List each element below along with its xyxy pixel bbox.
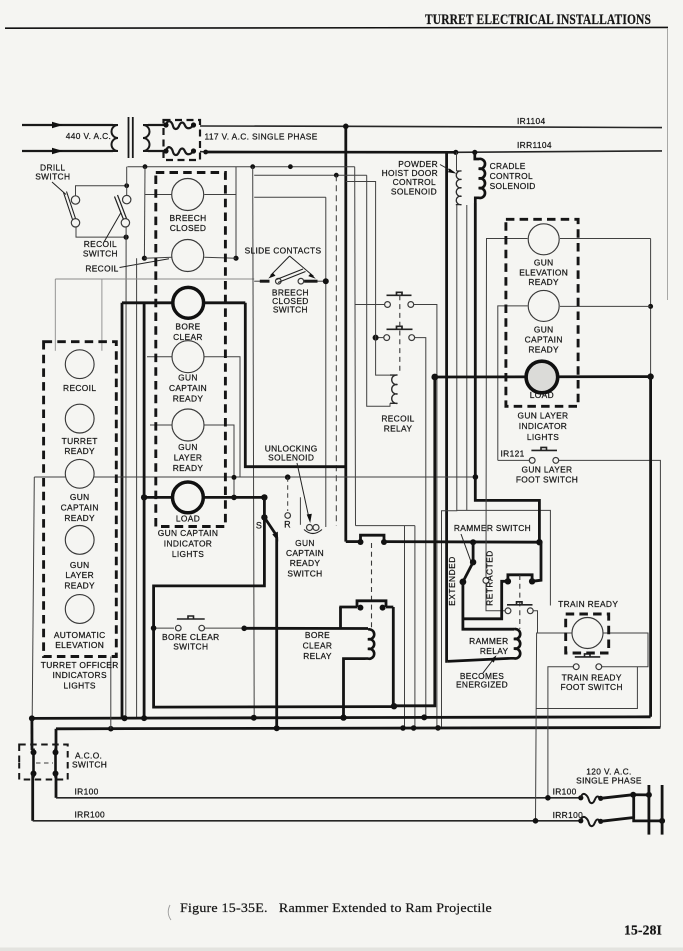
svg-text:SWITCH: SWITCH xyxy=(287,568,322,578)
wire recoil lamp return x136.6 xyxy=(136,258,138,717)
bold vertical from right LOAD row down xyxy=(393,377,435,706)
node dashed gang line top xyxy=(334,173,339,178)
bold fuse link IR100 xyxy=(601,795,649,799)
bold wire LOAD left riser/drop (bore clear row to Bus A) xyxy=(143,303,146,718)
bold wire S blade drop to bore clear line xyxy=(275,537,278,728)
wire to junction xyxy=(318,280,326,282)
node LOAD left xyxy=(141,494,147,500)
line IR100 xyxy=(56,797,581,799)
svg-text:SWITCH: SWITCH xyxy=(273,305,308,315)
terminal bar 2 (120V) xyxy=(661,785,664,835)
node y477 x234 xyxy=(232,475,237,480)
node y166 breech feed xyxy=(143,164,148,169)
svg-text:FOOT SWITCH: FOOT SWITCH xyxy=(516,475,578,485)
node on 117V bottom at x205 xyxy=(203,150,208,155)
svg-text:LAYER: LAYER xyxy=(65,570,94,580)
bore clear switch left lead xyxy=(154,627,174,629)
wire 117V bottom thin lead xyxy=(200,151,206,154)
svg-text:GUN: GUN xyxy=(178,373,198,383)
lamp RECOIL (turret officer) xyxy=(65,350,94,379)
RETRACTED open contact xyxy=(483,577,489,583)
wire gun elevation ready left drop to retracted xyxy=(486,239,528,578)
lamp RECOIL (gun captain) xyxy=(172,240,204,272)
lamp GUN LAYER READY (turret officer) xyxy=(65,526,94,555)
wire 117V bottom heavy segment xyxy=(206,151,456,154)
terminal bar 1 (120V) xyxy=(648,785,651,835)
bold retracted-side leg from bus xyxy=(532,542,541,581)
wire gun captain ready (right) left drop to IR121 xyxy=(498,306,528,461)
K3 auxiliary contact circles xyxy=(505,608,511,614)
svg-text:IR1104: IR1104 xyxy=(517,116,545,126)
svg-text:TURRET ELECTRICAL INSTALLATION: TURRET ELECTRICAL INSTALLATIONS xyxy=(425,12,651,28)
wire gun captain ready right xyxy=(560,305,651,307)
wire train ready foot switch left drop to IR100 xyxy=(548,667,574,798)
wire breech lamp right to switch loop xyxy=(204,194,236,196)
node on IRR100 xyxy=(533,818,539,824)
wire gun captain ready (center) left stub xyxy=(147,356,172,358)
K1 coil xyxy=(390,375,398,403)
wire gun captain ready (center) right stub xyxy=(205,357,241,478)
node K1 coil feed xyxy=(373,335,379,341)
svg-text:LOAD: LOAD xyxy=(176,514,200,524)
svg-text:RECOIL: RECOIL xyxy=(63,383,96,393)
recoil switch pole contacts xyxy=(123,195,131,203)
node y166 long vertical xyxy=(250,164,255,169)
breech closed switch blade (slide) xyxy=(277,269,306,283)
K2 contact right leg down xyxy=(392,607,395,706)
wire right collector x650 thin xyxy=(650,239,652,377)
transformer T1 primary winding xyxy=(112,125,119,151)
bold rammer bus y541 xyxy=(346,540,361,543)
svg-text:RAMMER: RAMMER xyxy=(469,636,508,646)
header rule xyxy=(5,26,668,29)
svg-text:INDICATOR: INDICATOR xyxy=(519,421,567,431)
K1 dashed actuator xyxy=(399,295,401,374)
solenoid L3 UNLOCKING symbol xyxy=(307,525,313,531)
wire secondary to fuse block bottom xyxy=(148,150,166,152)
svg-text:ELEVATION: ELEVATION xyxy=(55,640,104,650)
node breech switch right xyxy=(323,278,329,284)
wire return y477 xyxy=(34,476,475,478)
svg-text:440 V. A.C.: 440 V. A.C. xyxy=(66,131,111,141)
wire 117V top / line IR1104 xyxy=(200,126,662,128)
svg-text:GUN LAYER: GUN LAYER xyxy=(522,465,573,475)
wire enclosure right drop to Bus B xyxy=(414,526,416,728)
K1 second contact left wire xyxy=(376,337,384,339)
drill switch blade xyxy=(64,192,76,220)
wire breech switch top loop y197 xyxy=(254,196,326,198)
wire 440V top feeder xyxy=(22,124,113,126)
K1 second contact bar xyxy=(387,326,413,329)
node bore clear switch to relay line xyxy=(241,626,247,632)
wire line IRR1104 xyxy=(456,151,662,152)
leader line drill switch xyxy=(52,182,66,195)
svg-text:IRR100: IRR100 xyxy=(553,810,584,820)
svg-text:RELAY: RELAY xyxy=(480,646,509,656)
bold S blade with arrowhead xyxy=(264,517,276,535)
lamp GUN ELEVATION READY xyxy=(528,224,559,255)
breech closed switch left lead xyxy=(254,280,260,282)
node on IR100 xyxy=(545,795,551,801)
svg-text:READY: READY xyxy=(290,558,321,568)
svg-text:RECOIL: RECOIL xyxy=(85,263,118,273)
svg-text:ELEVATION: ELEVATION xyxy=(519,267,568,277)
fuse F4 on IRR100 xyxy=(578,818,583,823)
K3 auxiliary contact bar xyxy=(507,602,533,605)
K2 coil xyxy=(366,629,375,658)
ACO contact nodes xyxy=(31,749,37,755)
breech closed switch contacts xyxy=(276,278,282,284)
lamp BREECH CLOSED xyxy=(172,179,204,211)
node y477 R contact hang xyxy=(285,474,291,480)
node bus B drops xyxy=(108,726,114,732)
wire unlocking solenoid left lead xyxy=(299,497,301,525)
svg-text:GUN: GUN xyxy=(70,492,90,502)
svg-text:IR100: IR100 xyxy=(553,787,577,797)
svg-text:GUN LAYER: GUN LAYER xyxy=(518,411,569,421)
gun layer foot switch bar xyxy=(531,447,557,450)
svg-text:117 V. A.C. SINGLE PHASE: 117 V. A.C. SINGLE PHASE xyxy=(205,132,318,142)
svg-text:LOAD: LOAD xyxy=(530,390,554,400)
node rammer bus cradle junction xyxy=(536,539,542,545)
relay K3 RAMMER RELAY coil xyxy=(447,629,520,661)
node EXTENDED contact xyxy=(460,579,467,586)
fuse F3 on IR100 xyxy=(578,795,583,800)
arrow on 440V bottom wire xyxy=(52,148,63,154)
svg-text:RELAY: RELAY xyxy=(303,651,332,661)
K1 top contact circles xyxy=(385,302,391,308)
wire recoil lamp right stub xyxy=(204,257,236,258)
svg-text:LIGHTS: LIGHTS xyxy=(172,549,204,559)
switch ACO right riser from bus B xyxy=(55,729,58,750)
svg-text:TURRET: TURRET xyxy=(62,436,98,446)
rammer switch pivot drop xyxy=(472,542,475,562)
svg-text:CAPTAIN: CAPTAIN xyxy=(61,503,99,513)
node right collector load row xyxy=(647,373,653,379)
wire x355 from y166 through contact to enclosure top xyxy=(354,167,357,526)
svg-text:CAPTAIN: CAPTAIN xyxy=(525,335,563,345)
bore clear switch right lead xyxy=(205,627,245,629)
svg-text:SWITCH: SWITCH xyxy=(35,172,70,182)
bore clear switch contacts xyxy=(176,625,182,631)
svg-text:BORE CLEAR: BORE CLEAR xyxy=(162,632,220,642)
node bottom link xyxy=(124,235,129,240)
fuse block dashed enclosure xyxy=(164,120,201,160)
node staircase joins relay leg xyxy=(391,703,397,709)
svg-text:LAYER: LAYER xyxy=(174,453,203,463)
wire y175 recoil relay coil return xyxy=(254,174,367,176)
svg-text:READY: READY xyxy=(528,345,559,355)
node bus A left end xyxy=(29,715,35,721)
svg-text:INDICATOR: INDICATOR xyxy=(164,539,212,549)
wire turret officer box return to bus B xyxy=(110,657,112,729)
svg-text:CONTROL: CONTROL xyxy=(490,171,533,181)
svg-text:SOLENOID: SOLENOID xyxy=(490,181,536,191)
svg-text:SWITCH: SWITCH xyxy=(83,248,118,258)
lamp TURRET READY xyxy=(65,404,94,433)
wire enclosure inner drop to Bus B xyxy=(404,526,406,728)
stray pen mark xyxy=(168,905,171,920)
svg-text:ENERGIZED: ENERGIZED xyxy=(456,680,508,690)
node right collector captain row xyxy=(648,304,653,309)
lamp GUN LAYER READY (gun captain) xyxy=(172,409,204,441)
arrow on 440V top wire xyxy=(52,122,63,128)
node bore clear switch left on bold vertical xyxy=(151,625,157,631)
box GUN CAPTAIN INDICATOR LIGHTS xyxy=(156,173,226,527)
rammer switch blade to EXTENDED xyxy=(463,562,473,582)
K2 coil bottom return to Bus A xyxy=(344,659,366,718)
solenoid L1 POWDER HOIST DOOR CONTROL top lead xyxy=(456,152,458,171)
leader arrows slide contacts xyxy=(271,256,314,276)
wire recoil lamp left stub xyxy=(144,257,172,258)
page bottom shadow xyxy=(0,948,683,951)
wire gun elevation ready right xyxy=(560,238,651,240)
gun layer foot switch contacts xyxy=(529,458,535,464)
svg-text:IRR100: IRR100 xyxy=(75,810,106,820)
lamp GUN CAPTAIN READY (gun captain) xyxy=(172,341,204,373)
rammer switch feed node on bus xyxy=(470,539,476,545)
bold wire bore clear lamp right xyxy=(204,301,246,304)
svg-text:IRR1104: IRR1104 xyxy=(517,140,552,150)
svg-text:RECOIL: RECOIL xyxy=(381,414,414,424)
svg-text:GUN: GUN xyxy=(534,325,554,335)
K2 load contact bridge xyxy=(357,601,386,607)
svg-text:RELAY: RELAY xyxy=(384,424,413,434)
svg-text:SWITCH: SWITCH xyxy=(173,642,208,652)
svg-text:READY: READY xyxy=(64,446,95,456)
svg-text:RAMMER SWITCH: RAMMER SWITCH xyxy=(454,523,531,533)
K3 hold contact bridge xyxy=(508,575,532,582)
rammer assembly enclosure line xyxy=(457,510,551,605)
node on LOAD row xyxy=(231,495,237,501)
K1 top contact left wire to enclosure xyxy=(356,304,385,306)
wire train ready lamp left drop to IRR100 xyxy=(536,633,573,821)
bus bold vertical from IR1104 xyxy=(344,126,347,541)
box GUN LAYER INDICATOR LIGHTS xyxy=(506,219,578,406)
node recoil lamp wire xyxy=(142,256,147,261)
wire train ready lamp right loop xyxy=(602,633,649,667)
ACO dashed link xyxy=(36,762,53,764)
K1 second contact right wire to Bus A xyxy=(415,338,426,718)
bold wire bore clear right drop xyxy=(245,303,345,467)
lamp AUTOMATIC ELEVATION xyxy=(65,595,94,624)
faint wire turret officer recoil lamp feeder xyxy=(55,278,254,280)
bold wire LOAD row (right box) xyxy=(435,375,651,378)
svg-text:SOLENOID: SOLENOID xyxy=(391,187,437,197)
node drill link on recoil pole xyxy=(124,183,129,188)
bold fuse link IRR100 xyxy=(601,795,662,822)
svg-text:IR121: IR121 xyxy=(501,449,525,459)
svg-text:TRAIN READY: TRAIN READY xyxy=(562,673,622,683)
relay K2 BORE CLEAR RELAY hold contact (on rammer bus) xyxy=(361,535,385,541)
bus A bold return xyxy=(32,717,651,719)
bold wire bore clear lamp left xyxy=(122,301,173,304)
relay K1 RECOIL RELAY top contact bar xyxy=(387,292,412,295)
svg-text:INDICATORS: INDICATORS xyxy=(53,670,107,680)
leader rammer switch xyxy=(461,534,472,563)
drill switch pole contacts xyxy=(71,196,79,204)
node IRR1104 powder solenoid tap xyxy=(453,150,458,155)
bold right bus down to Bus A xyxy=(649,377,652,717)
K3 dashed actuator xyxy=(519,575,521,629)
box TURRET OFFICER INDICATORS LIGHTS xyxy=(44,342,117,657)
faint stub right xyxy=(101,279,103,351)
svg-text:READY: READY xyxy=(173,394,204,404)
svg-text:CONTROL: CONTROL xyxy=(393,177,436,187)
faint stub left xyxy=(54,279,56,351)
node LOAD right xyxy=(261,494,267,500)
svg-text:TURRET OFFICER: TURRET OFFICER xyxy=(41,660,119,670)
svg-text:EXTENDED: EXTENDED xyxy=(447,556,457,606)
svg-text:Figure 15-35E. Rammer Extend: Figure 15-35E. Rammer Extended to Ram Pr… xyxy=(180,900,492,915)
leader recoil switch xyxy=(104,213,121,243)
svg-text:LIGHTS: LIGHTS xyxy=(64,681,96,691)
bold wire cradle solenoid down to rammer switch bus xyxy=(475,203,539,542)
svg-text:CLEAR: CLEAR xyxy=(303,641,333,651)
lamp GUN CAPTAIN READY (turret officer) xyxy=(65,459,94,488)
svg-text:BREECH: BREECH xyxy=(169,213,206,223)
dashed gang line x336 xyxy=(335,175,337,525)
svg-text:IR100: IR100 xyxy=(75,787,99,797)
bold S pivot node xyxy=(261,514,267,520)
leader recoil lamp xyxy=(120,259,170,268)
K3 aux right wire to train ready branch xyxy=(533,611,537,633)
bus bold vertical from 117V heavy segment down to rammer relay xyxy=(445,152,448,661)
wire ACO right to IR100 xyxy=(55,774,58,798)
ACO switch dashed enclosure xyxy=(19,745,67,780)
solenoid L1 coil xyxy=(456,171,462,205)
page right edge mark xyxy=(667,28,669,300)
bold wire bore clear lamp left return to Bus A xyxy=(121,303,124,718)
svg-text:15-28I: 15-28I xyxy=(624,923,662,938)
leader unlocking solenoid xyxy=(297,463,309,518)
K1 top contact right wire xyxy=(414,305,437,728)
wire y477 left drop to Bus A xyxy=(32,477,34,718)
switch GUN CAPTAIN READY S-R dashed actuator xyxy=(287,477,289,511)
svg-text:AUTOMATIC: AUTOMATIC xyxy=(54,630,106,640)
ACO switch left contact bar xyxy=(32,749,35,778)
K1 coil bottom return xyxy=(367,175,390,406)
node y166 right xyxy=(288,164,293,169)
train ready foot switch bar xyxy=(575,654,600,657)
switch ACO left riser xyxy=(30,718,33,750)
svg-text:CLOSED: CLOSED xyxy=(170,223,207,233)
svg-text:READY: READY xyxy=(528,277,559,287)
svg-text:READY: READY xyxy=(173,463,204,473)
K1 second contact circles xyxy=(384,335,390,341)
solenoid L2 CRADLE CONTROL coil (bold) xyxy=(475,152,485,203)
bus B bold return xyxy=(56,728,660,729)
svg-text:R: R xyxy=(284,520,291,530)
node y477 right end on cradle bold xyxy=(473,474,479,480)
node bold x434 top xyxy=(431,374,438,381)
svg-text:READY: READY xyxy=(64,513,95,523)
bold staircase EXTENDED to K3 coil and hold contact xyxy=(463,582,514,629)
R contact circle xyxy=(285,513,291,519)
train ready foot switch contacts xyxy=(573,664,579,670)
line IRR100 xyxy=(33,820,581,822)
svg-text:SLIDE CONTACTS: SLIDE CONTACTS xyxy=(245,246,322,256)
lamp LOAD (gun layer, bold, filled) xyxy=(526,361,558,393)
wire breech lamp left stub xyxy=(145,194,172,196)
lamp TRAIN READY xyxy=(572,618,603,649)
svg-text:TRAIN READY: TRAIN READY xyxy=(558,599,618,609)
solenoid L1 second lead down xyxy=(466,205,468,510)
svg-text:SOLENOID: SOLENOID xyxy=(268,452,314,462)
wire long vertical x254 xyxy=(253,167,255,718)
K2 contact left leg to coil line xyxy=(339,607,342,629)
K2 dashed actuator xyxy=(371,543,373,629)
svg-text:SINGLE PHASE: SINGLE PHASE xyxy=(576,775,642,785)
train ready assembly enclosure line xyxy=(536,667,637,709)
svg-text:CAPTAIN: CAPTAIN xyxy=(169,383,207,393)
fuse F1 (top 117V line) xyxy=(166,121,194,129)
wire gun layer ready (center) right hang xyxy=(205,425,235,497)
svg-text:BORE: BORE xyxy=(305,630,330,640)
svg-text:GUN: GUN xyxy=(295,538,315,548)
leader becomes energized xyxy=(483,659,494,674)
lamp BORE CLEAR (bold) xyxy=(173,287,204,318)
wire foot switch right to Bus B riser xyxy=(559,460,661,727)
recoil switch blade xyxy=(115,195,127,220)
bold rammer bus continues xyxy=(384,540,541,543)
svg-text:GUN: GUN xyxy=(70,560,90,570)
svg-text:CRADLE: CRADLE xyxy=(490,161,526,171)
breech closed switch left bar xyxy=(260,280,270,283)
wire lamp feed vertical x236 xyxy=(235,167,237,259)
svg-text:SWITCH: SWITCH xyxy=(72,760,107,770)
breech closed switch right bar xyxy=(304,280,317,283)
box TRAIN READY xyxy=(566,614,609,653)
wire top collector y166 xyxy=(127,166,354,168)
K1 enclosure top xyxy=(356,525,415,527)
wire IR121 to gun layer foot switch xyxy=(498,459,530,461)
relay K3 hold contact dots xyxy=(505,578,511,584)
lamp GUN CAPTAIN READY (gun layer) xyxy=(528,290,559,321)
ACO switch right contact bar xyxy=(54,749,57,778)
bore clear switch bar xyxy=(177,616,205,619)
svg-text:GUN: GUN xyxy=(534,258,554,268)
transformer T1 secondary winding xyxy=(143,125,150,151)
bold coil line y628 xyxy=(244,627,368,630)
K2 load contact baseline xyxy=(339,606,393,609)
node bus top on IR1104 xyxy=(343,124,349,130)
wire drill/recoil pole bottom link xyxy=(76,227,126,237)
bold wire LOAD row (center box) xyxy=(144,496,264,499)
wire gun layer ready (center) left stub xyxy=(150,424,172,426)
bold wire LOAD right drop through S pivot to staircase xyxy=(154,497,394,707)
node bus A lamp drops xyxy=(122,715,128,721)
svg-text:CAPTAIN: CAPTAIN xyxy=(286,548,324,558)
node IRR1104 cradle solenoid tap xyxy=(472,150,477,155)
bold leg hold-contact-left down xyxy=(463,581,508,619)
svg-text:BORE: BORE xyxy=(175,322,200,332)
transformer T1 core xyxy=(129,117,133,158)
svg-text:GUN: GUN xyxy=(178,442,198,452)
solenoid L1 return lead down xyxy=(442,205,457,728)
wire recoil pole down to Bus A xyxy=(125,227,127,718)
wire breech lamp feed vertical x145 xyxy=(143,167,146,259)
svg-text:READY: READY xyxy=(64,581,95,591)
lamp LOAD (gun captain, bold) xyxy=(173,482,204,513)
recoil switch pole riser xyxy=(126,167,128,196)
fuse F2 (bottom 117V line) xyxy=(166,147,194,155)
wire K1 coil feed from bus tap xyxy=(346,182,390,376)
wire ACO left to IRR100 xyxy=(31,774,34,821)
wire secondary to fuse block top xyxy=(148,124,166,126)
svg-text:GUN CAPTAIN: GUN CAPTAIN xyxy=(158,528,218,538)
svg-text:LIGHTS: LIGHTS xyxy=(527,432,559,442)
